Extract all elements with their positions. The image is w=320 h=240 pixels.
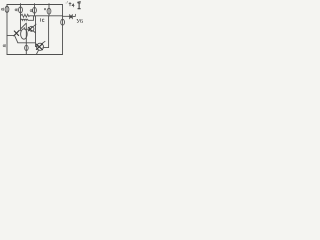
transistor Q1 collector lead [21,23,26,28]
wire left rail [20,16,22,31]
wire Q2 emitter to ground rail [37,50,39,54]
label I arrow [78,1,81,4]
source E6 [25,45,29,50]
capacitor C1 [70,15,73,19]
source E5 [61,19,65,25]
node output dot [70,15,73,18]
node top ticks [21,3,50,4]
wire E3 drop [34,5,36,17]
wire main horizontal [30,15,63,17]
wire Q3 emitter diag [33,31,36,33]
wire Q1 emitter diag [15,36,18,42]
wire lower horizontal [18,42,36,44]
wire Q2 collector diag [42,41,46,44]
wire right border [62,5,64,55]
wire output 2 [73,15,75,17]
tick mark [74,14,76,16]
label a4 [3,45,5,47]
wire collector rail [25,23,27,54]
wire E4 drop [48,5,50,16]
source E2 [19,7,23,13]
wire mid rail [35,16,37,43]
wire bottom border [7,54,63,56]
wire into Q2 [36,43,38,47]
wire base lead [7,35,14,37]
label a1 [1,8,3,10]
label C [40,19,42,22]
label t4 [69,2,71,6]
label a3 [30,10,32,12]
transistor Q2 crossing [36,44,42,50]
wire Q3 collector diag [33,24,36,27]
wire output [63,15,70,17]
source E3 [33,7,37,13]
inductor L1 [21,16,34,20]
node A junction [48,15,49,16]
transistor Q1 emitter arrow [14,30,19,35]
tube Q1 envelope [21,29,28,39]
label a2 [15,9,17,11]
source E4 [47,8,51,14]
wire anode rail [43,16,49,48]
transistor Q3 envelope [29,26,34,31]
wire top border [7,4,63,6]
node W3 crossing [26,42,27,43]
wire E2 drop [20,5,22,16]
resistor R1 [21,14,30,17]
source E1 [5,6,9,12]
label a5 mark [44,9,45,10]
transistor Q2 envelope [37,43,44,50]
wire left border [6,5,8,55]
wire Q3 base stub [27,28,29,30]
node cathode-ground [36,53,37,54]
svg-text:У6: У6 [76,18,83,25]
wire tube top nub [23,28,25,30]
transistor Q3 crossing [28,27,32,31]
